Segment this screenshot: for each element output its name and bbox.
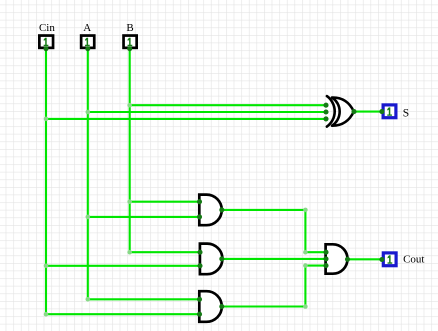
wire XOR output to pin S	[354, 111, 382, 113]
wire A to AND1 bottom input	[88, 216, 200, 218]
wire into OR gate top input	[305, 251, 326, 253]
pin dot AND2 output	[219, 256, 224, 261]
or-gate (D-shaped) for carry	[326, 244, 348, 273]
svg-text:Cin: Cin	[39, 22, 55, 34]
pin dot A output	[85, 46, 90, 51]
pin dot Cout input	[379, 257, 384, 262]
wire B to XOR top input	[130, 104, 326, 106]
junction Cin to AND2 branch	[44, 264, 49, 269]
wire AND1 branch vertical down	[304, 210, 306, 252]
svg-text:S: S	[403, 107, 409, 119]
pin dot AND1 input 1	[197, 199, 202, 204]
junction Cin corner to AND3	[44, 312, 49, 317]
label A	[83, 22, 91, 34]
junction B corner to AND2	[127, 250, 132, 255]
junction A corner to AND3	[86, 297, 91, 302]
junction Cin to XOR branch	[44, 117, 49, 122]
pin dot XOR input 1	[323, 103, 328, 108]
wire B to AND1 top input	[130, 201, 200, 203]
junction OR top input corner	[303, 250, 308, 255]
output pin S	[383, 105, 396, 118]
pin dot XOR input 3	[323, 116, 328, 121]
pin dot AND2 input 1	[197, 250, 202, 255]
label S	[403, 107, 409, 119]
wire A vertical	[87, 49, 89, 299]
junction B to XOR branch	[127, 103, 132, 108]
wire Cin to XOR bottom input	[46, 118, 326, 120]
and-gate AND3	[199, 291, 221, 322]
junction OR bottom input corner	[303, 263, 308, 268]
pin dot OR output	[345, 257, 350, 262]
pin dot OR input 2	[323, 256, 328, 261]
wire AND2 output to OR middle input	[222, 258, 326, 260]
and-gate AND2	[200, 244, 223, 275]
and-gate AND1	[199, 195, 221, 226]
wire AND1 output horizontal	[222, 209, 306, 211]
pin dot Cin output	[44, 46, 49, 51]
label Cin	[39, 22, 55, 34]
pin dot S input	[379, 109, 384, 114]
pin dot AND3 input 1	[197, 297, 202, 302]
input pin B	[124, 36, 137, 48]
junction A to XOR branch	[86, 110, 91, 115]
wire Cin to AND3 bottom input	[46, 313, 200, 315]
pin dot OR input 3	[323, 263, 328, 268]
junction AND3 output corner	[303, 304, 308, 309]
xor-gate for sum	[327, 96, 354, 127]
wire AND3 branch vertical up	[304, 266, 306, 307]
pin dot AND1 input 2	[197, 214, 202, 219]
pin dot AND3 output	[219, 304, 224, 309]
svg-text:B: B	[126, 22, 133, 34]
junction B to AND1 branch	[127, 199, 132, 204]
pin dot XOR output	[351, 109, 356, 114]
label B	[126, 22, 133, 34]
wire A to XOR middle input	[88, 111, 326, 113]
pin dot AND1 output	[219, 207, 224, 212]
input pin Cin	[39, 36, 53, 48]
pin dot B output	[127, 46, 132, 51]
wire AND3 output horizontal	[222, 305, 306, 307]
junction A to AND1 branch	[86, 215, 91, 220]
svg-text:Cout: Cout	[403, 254, 424, 266]
pin dot AND3 input 2	[197, 312, 202, 317]
wire into OR gate bottom input	[305, 265, 326, 267]
output pin Cout	[383, 253, 396, 266]
junction AND1 output corner	[303, 208, 308, 213]
label Cout	[403, 254, 424, 266]
input pin A	[81, 36, 94, 48]
wire Cin to AND2 bottom input	[46, 265, 200, 267]
svg-text:A: A	[83, 22, 91, 34]
pin dot AND2 input 2	[197, 263, 202, 268]
wire B to AND2 top input	[130, 251, 200, 253]
wire Cin vertical	[45, 49, 47, 314]
wire B vertical	[129, 49, 131, 252]
wire OR output to pin Cout	[348, 258, 382, 260]
pin dot XOR input 2	[323, 109, 328, 114]
pin dot OR input 1	[323, 250, 328, 255]
wire A to AND3 top input	[88, 298, 200, 300]
